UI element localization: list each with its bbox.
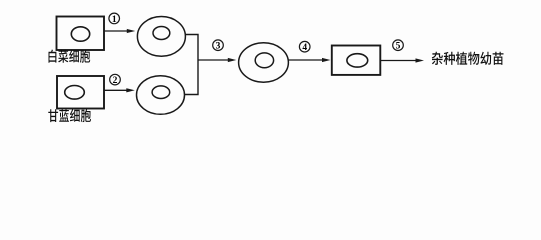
杂种植物幼苗 label [432, 52, 504, 65]
甘蓝细胞 nucleus ellipse [65, 86, 85, 100]
arrow 1 [105, 30, 131, 32]
label ⑤ [393, 40, 404, 51]
白菜细胞 label [49, 50, 91, 63]
svg-text:5: 5 [396, 42, 401, 52]
白菜细胞 nucleus ellipse [71, 27, 89, 41]
fused cell nucleus [255, 53, 273, 68]
svg-text:4: 4 [302, 43, 307, 53]
label ④ [299, 41, 310, 52]
label ③ [213, 40, 224, 51]
arrow 2 [104, 89, 130, 91]
arrow 5 [380, 60, 418, 62]
protoplast A (top ellipse) [137, 17, 185, 57]
hybrid cell nucleus [347, 54, 368, 67]
白菜细胞 box (cabbage cell) [57, 17, 105, 51]
protoplast B (bottom ellipse) [137, 76, 185, 115]
arrow 4 [288, 59, 325, 61]
protoplast A nucleus [153, 27, 170, 40]
label ② [110, 74, 121, 85]
arrow 3 [198, 59, 231, 61]
svg-text:3: 3 [216, 42, 221, 52]
protoplast B nucleus [152, 86, 170, 99]
甘蓝细胞 box (kale cell) [57, 76, 104, 109]
hybrid cell box [332, 46, 381, 75]
svg-text:2: 2 [113, 76, 118, 86]
label ① [109, 13, 120, 24]
merge connector [185, 35, 199, 95]
svg-text:1: 1 [112, 15, 117, 25]
fused cell (middle ellipse) [239, 43, 289, 82]
甘蓝细胞 label [48, 109, 91, 122]
